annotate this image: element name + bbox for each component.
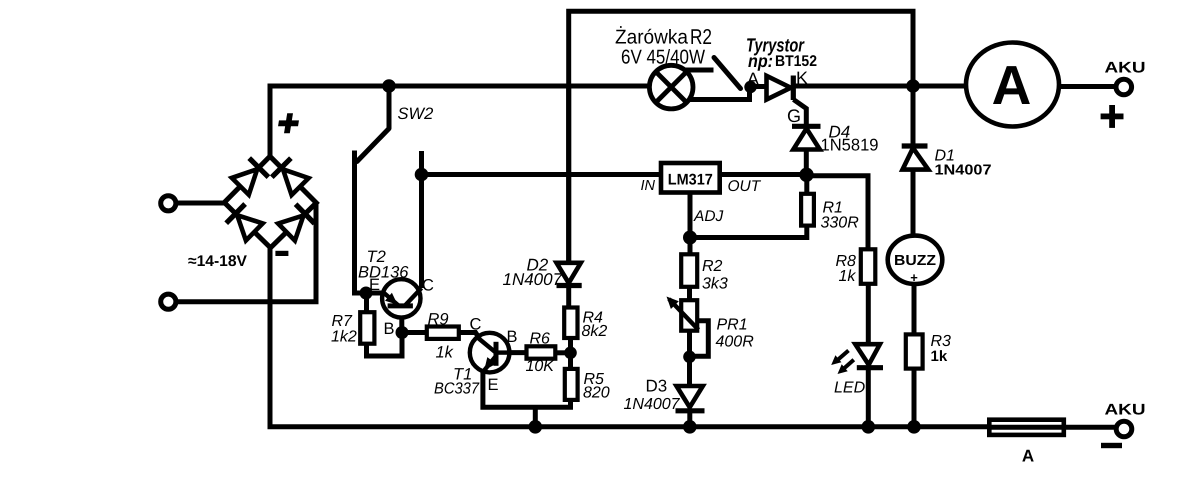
- svg-text:IN: IN: [641, 178, 656, 194]
- wire LED to bottom rail: [866, 368, 871, 427]
- label R4: [583, 310, 604, 327]
- svg-text:6V 45/40W: 6V 45/40W: [621, 47, 705, 69]
- wire lamp upper stub to switch contact: [686, 68, 714, 73]
- wire OUT junction to R8 branch: [807, 176, 868, 250]
- label D1: [935, 148, 955, 165]
- diode D4 1N5819: [792, 126, 821, 149]
- label R5: [584, 371, 605, 388]
- resistor R2 3k3: [681, 254, 697, 286]
- buzzer BUZZ: [888, 236, 943, 285]
- label 330R: [821, 215, 860, 232]
- svg-text:A: A: [1022, 447, 1034, 466]
- resistor R3 1k: [906, 334, 923, 368]
- label D3: [646, 377, 668, 396]
- label R2: [702, 258, 723, 275]
- wire T1 base to R6: [509, 350, 527, 355]
- label K cathode: [796, 68, 808, 88]
- label T2: [367, 248, 386, 266]
- svg-text:A: A: [992, 54, 1032, 116]
- svg-text:E: E: [369, 276, 380, 294]
- wire T2 collector riser: [419, 151, 424, 288]
- svg-text:1k2: 1k2: [331, 329, 357, 346]
- wire main positive rail from bridge to lamp: [270, 86, 650, 157]
- wire D3 to bottom rail: [687, 411, 692, 427]
- svg-text:C: C: [422, 277, 434, 295]
- wire R9 to T1 collector: [459, 333, 480, 339]
- minus mark AKU: [1101, 443, 1122, 448]
- svg-text:1N4007: 1N4007: [935, 163, 992, 179]
- label SW2: [398, 105, 434, 123]
- diode LED: [831, 344, 883, 374]
- svg-text:R6: R6: [530, 331, 551, 348]
- svg-text:R2: R2: [690, 25, 712, 49]
- svg-text:1N5819: 1N5819: [821, 136, 879, 155]
- label 6V 45/40W: [621, 47, 705, 69]
- junction R4-R5-R6 node: [564, 347, 577, 360]
- diode D3 1N4007: [676, 386, 705, 411]
- label 1k R8: [839, 268, 857, 285]
- label E T1: [488, 376, 499, 394]
- svg-text:B: B: [507, 328, 518, 346]
- junction lamp-switch-anode: [744, 81, 756, 93]
- label 1N4007 D3: [624, 396, 681, 413]
- wire LM317 IN line: [422, 172, 662, 177]
- wire R7 top: [364, 293, 369, 313]
- wire R3 to bottom rail: [912, 369, 917, 428]
- label E T2: [369, 276, 380, 294]
- svg-text:330R: 330R: [821, 215, 860, 232]
- wire bottom negative rail: [270, 248, 990, 427]
- label 1k R3: [931, 348, 948, 365]
- label 1k R9: [436, 344, 454, 362]
- wire R7 bottom to base node: [367, 333, 403, 357]
- wire SW2 left contact down to T2 emitter node: [355, 151, 367, 294]
- svg-text:R7: R7: [332, 313, 354, 330]
- svg-text:PR1: PR1: [717, 317, 748, 334]
- plus mark AKU: [1101, 105, 1124, 128]
- fuse A: [989, 420, 1064, 435]
- label T1: [453, 366, 472, 384]
- svg-text:1N4007: 1N4007: [503, 270, 563, 289]
- svg-text:np:: np:: [748, 51, 773, 71]
- wire thyristor gate lead: [794, 100, 807, 127]
- label np:: [748, 51, 773, 71]
- label IN: [641, 178, 656, 194]
- label BD136: [358, 264, 409, 282]
- label transformer voltage: [188, 253, 248, 270]
- svg-text:A: A: [747, 69, 759, 89]
- wire thyristor anode junction to triangle: [751, 84, 767, 89]
- label BC337: [434, 381, 480, 398]
- label G gate: [787, 106, 801, 126]
- junction PR1 bottom node: [683, 351, 696, 364]
- label LED: [834, 380, 866, 397]
- svg-text:LED: LED: [834, 380, 866, 397]
- terminal AC bottom: [161, 294, 176, 309]
- svg-text:1N4007: 1N4007: [624, 396, 681, 413]
- label 1N5819: [821, 136, 879, 155]
- wire fuse to AKU- terminal: [989, 425, 1116, 430]
- svg-text:K: K: [796, 68, 808, 88]
- label C T1: [470, 316, 482, 334]
- label B T1: [507, 328, 518, 346]
- junction R3 on rail: [907, 420, 921, 434]
- label 1N4007 D1: [935, 163, 992, 179]
- svg-text:AKU: AKU: [1105, 60, 1146, 77]
- bridge diode lower-left: [226, 204, 263, 241]
- thyristor BT152 triangle: [767, 76, 791, 100]
- label C T2: [422, 277, 434, 295]
- wire D2 branch riser: [566, 86, 571, 263]
- lamp Zarowka R2 symbol: [649, 65, 693, 109]
- wire AC bottom terminal to bridge right vertex: [176, 204, 316, 302]
- bridge minus mark: [275, 251, 288, 256]
- label 820: [583, 385, 610, 402]
- wire ADJ to R1 bottom: [690, 225, 807, 238]
- label A anode: [747, 69, 759, 89]
- resistor R7 1k2: [360, 312, 374, 344]
- svg-text:3k3: 3k3: [702, 276, 728, 293]
- svg-text:R9: R9: [428, 311, 449, 329]
- resistor R9 1k: [427, 327, 459, 339]
- label A fuse: [1022, 447, 1034, 466]
- wire emitter run drop to bottom rail: [533, 407, 538, 426]
- junction T2 emitter node: [360, 287, 373, 300]
- junction D1 tap on rail: [906, 79, 920, 93]
- terminal AKU plus: [1116, 79, 1132, 95]
- label 1N4007 D2: [503, 270, 563, 289]
- wire R6 to divider node: [555, 350, 571, 355]
- bridge rectifier diamond: [224, 156, 316, 248]
- label BT152: [775, 53, 817, 70]
- svg-text:R2: R2: [702, 258, 723, 275]
- wire R8 to LED: [866, 284, 871, 345]
- svg-text:G: G: [787, 106, 801, 126]
- wire R4 to R5 node: [568, 338, 573, 370]
- resistor R1 330R: [801, 194, 814, 226]
- wire T2 emitter node to transistor: [366, 291, 384, 296]
- label AKU top: [1105, 60, 1146, 77]
- wire top outer rail: [569, 11, 913, 262]
- terminal AC top: [161, 196, 176, 211]
- wire D4 anode to OUT junction: [804, 149, 809, 175]
- label 3k3: [702, 276, 728, 293]
- thyristor cathode bar: [791, 76, 796, 101]
- svg-text:8k2: 8k2: [582, 323, 608, 340]
- potentiometer PR1 400R: [667, 297, 699, 331]
- label OUT: [728, 178, 762, 195]
- label R6: [530, 331, 551, 348]
- label 400R: [716, 334, 755, 351]
- svg-text:≈14-18V: ≈14-18V: [188, 253, 248, 270]
- label 8k2: [582, 323, 608, 340]
- terminal AKU minus: [1116, 421, 1132, 437]
- label Zarowka: [615, 26, 689, 49]
- wire base node to R9: [402, 330, 427, 335]
- resistor R5 820: [565, 369, 578, 400]
- label R1: [823, 200, 843, 217]
- wire lamp lower stub to anode junction: [689, 87, 750, 100]
- junction OUT-D4-R1 node: [799, 168, 813, 182]
- label R2 lamp: [690, 25, 712, 49]
- label D2: [527, 256, 549, 275]
- bridge plus mark: [277, 113, 300, 133]
- svg-text:BUZZ: BUZZ: [894, 253, 936, 269]
- junction ADJ node: [683, 231, 697, 245]
- resistor R8 1k: [861, 249, 876, 283]
- wire ADJ junction to R2: [688, 238, 693, 255]
- wire PR1 wiper bracket: [691, 321, 708, 357]
- label R9: [428, 311, 449, 329]
- switch SW2 arm: [357, 129, 389, 162]
- junction D3 on rail: [683, 420, 697, 434]
- wire buzzer to R3: [912, 284, 917, 335]
- diode D1 1N4007: [902, 146, 929, 170]
- junction SW2 tap: [382, 79, 396, 93]
- wire R2 to PR1: [687, 287, 692, 301]
- bridge diode upper-right: [272, 158, 309, 195]
- label D4: [829, 123, 851, 142]
- svg-text:C: C: [470, 316, 482, 334]
- diode D2 1N4007: [557, 263, 582, 286]
- bridge diode upper-left: [232, 158, 269, 195]
- label 10K: [526, 358, 556, 375]
- wire rail junction to D1: [911, 86, 916, 147]
- svg-text:BC337: BC337: [434, 381, 480, 398]
- label ADJ: [693, 208, 724, 225]
- label 1k2: [331, 329, 357, 346]
- wire AC top terminal to bridge: [176, 201, 225, 206]
- label R7: [332, 313, 354, 330]
- junction LED on rail: [862, 420, 876, 434]
- wire OUT junction to R1 top: [804, 175, 809, 195]
- label R3: [931, 333, 952, 350]
- label AKU bottom: [1105, 402, 1146, 419]
- transistor T2 BD136: [382, 279, 421, 317]
- svg-text:AKU: AKU: [1105, 402, 1146, 419]
- label PR1: [717, 317, 748, 334]
- wire T2 base to node: [399, 316, 404, 333]
- wire thyristor cathode to ammeter: [793, 84, 967, 89]
- bridge diode lower-right: [278, 204, 314, 240]
- svg-text:LM317: LM317: [668, 172, 713, 189]
- svg-text:OUT: OUT: [728, 178, 762, 195]
- wire LM317 ADJ drop: [688, 193, 693, 238]
- svg-text:D3: D3: [646, 377, 668, 396]
- wire lamp bypass switch arm: [714, 58, 741, 89]
- junction emitter drop on rail: [529, 420, 543, 434]
- svg-text:ADJ: ADJ: [693, 208, 724, 225]
- resistor R6 10K: [527, 346, 556, 358]
- svg-text:1k: 1k: [839, 268, 857, 285]
- label R8: [836, 253, 857, 270]
- svg-text:BD136: BD136: [358, 264, 409, 282]
- wire D1 to buzzer: [911, 170, 916, 237]
- regulator U1 LM317: [661, 163, 720, 193]
- svg-text:+: +: [910, 270, 918, 285]
- svg-text:10K: 10K: [526, 358, 556, 375]
- svg-text:1k: 1k: [436, 344, 454, 362]
- svg-text:SW2: SW2: [398, 105, 434, 123]
- junction T2 base node: [396, 326, 409, 339]
- wire SW2 stub from top rail: [387, 86, 392, 129]
- transistor T1 BC337: [470, 333, 510, 373]
- wire LM317 OUT to junction: [720, 172, 807, 177]
- wire D2 to R4: [566, 286, 571, 309]
- svg-text:1k: 1k: [931, 348, 948, 365]
- label B T2: [384, 320, 395, 338]
- junction LM317 IN node: [415, 168, 429, 182]
- svg-text:820: 820: [583, 385, 610, 402]
- svg-text:Żarówka: Żarówka: [615, 26, 689, 49]
- wire ammeter to AKU+ terminal: [1059, 84, 1116, 89]
- svg-text:E: E: [488, 376, 499, 394]
- wire PR1 to D3: [687, 331, 692, 387]
- resistor R4 8k2: [564, 308, 577, 339]
- label Tyrystor: [746, 36, 805, 57]
- wire R5 bottom to emitter run: [483, 371, 571, 407]
- svg-text:400R: 400R: [716, 334, 755, 351]
- svg-text:B: B: [384, 320, 395, 338]
- meter ammeter A: [966, 43, 1059, 127]
